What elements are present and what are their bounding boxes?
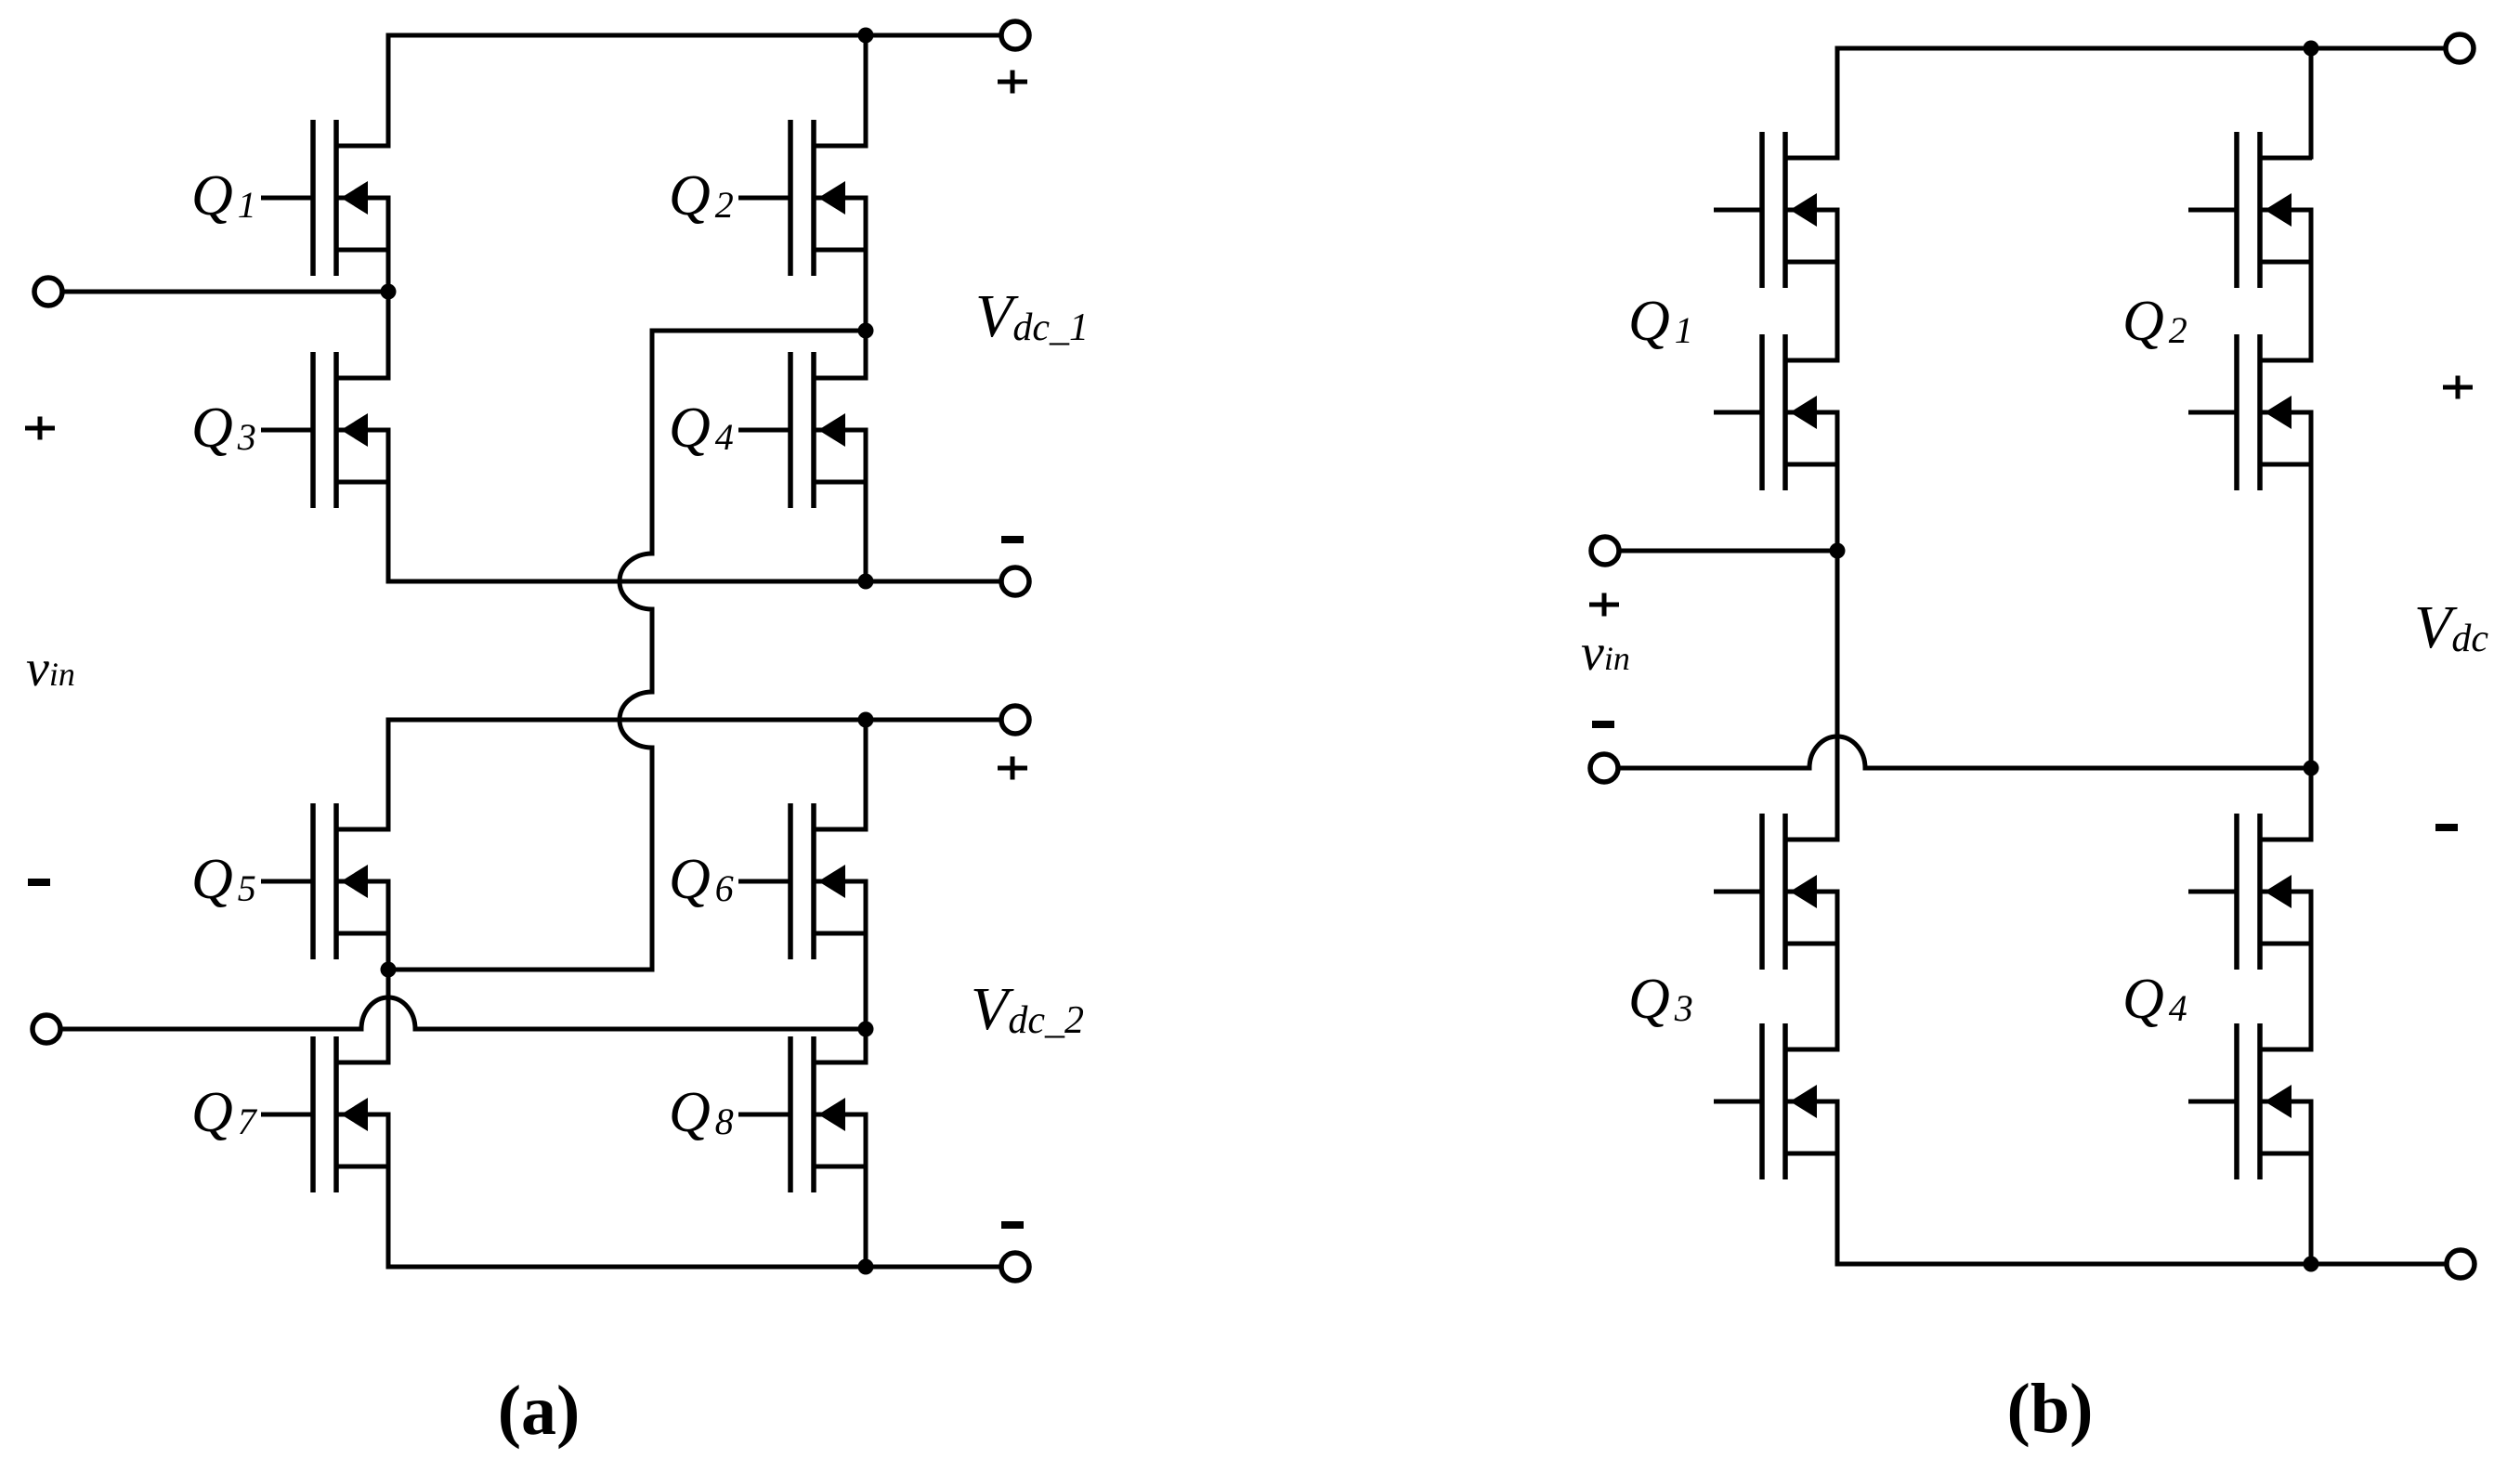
- junction input vin+ / Q1-Q3 node (b): [1830, 543, 1846, 559]
- polarity + Vdc_1: [998, 71, 1027, 94]
- junction node A / Q5-Q7 node: [381, 962, 397, 978]
- transistor Q2 lower half: [2188, 334, 2312, 490]
- wire Q2 drain (b): [2309, 48, 2314, 157]
- transistor Q4 lower half: [2188, 1023, 2312, 1179]
- wire Q1 source to Q3 drain (b): [1835, 412, 1840, 840]
- terminal Vdc_2 +: [1001, 706, 1029, 734]
- polarity + vin (b): [1589, 593, 1619, 617]
- wire Q6 source to Q8 drain: [864, 881, 868, 1062]
- junction Q4 source / bottom rail (b): [2304, 1257, 2319, 1272]
- wire cross-connect node A with hops: [388, 331, 866, 970]
- polarity + Vdc: [2443, 376, 2473, 399]
- wire input vin- (a) with hop: [62, 997, 866, 1029]
- polarity - vin (a): [28, 879, 50, 886]
- transistor Q6: [738, 803, 866, 959]
- wire Q1 internal (b): [1835, 210, 1840, 360]
- polarity - vin (b): [1592, 721, 1614, 728]
- transistor Q2: [738, 120, 866, 276]
- transistor Q4: [738, 352, 866, 508]
- terminal vin - (a): [33, 1015, 60, 1043]
- wire Q2 internal (b): [2309, 210, 2314, 360]
- junction input vin- / Q2-Q4 node (b): [2304, 761, 2319, 776]
- wire Q7 source to bottom rail: [388, 1114, 1001, 1267]
- wire top rail Vdc_1 +: [388, 35, 1001, 146]
- junction input vin+ / Q1-Q3 node: [381, 284, 397, 300]
- terminal Vdc + (b): [2446, 34, 2474, 62]
- wire Q4 source (b): [2309, 1101, 2314, 1264]
- transistor Q3 lower half: [1714, 1023, 1837, 1179]
- transistor Q7: [261, 1036, 388, 1192]
- wire top rail Vdc +: [1837, 48, 2446, 158]
- wire Q1 source to Q3 drain: [386, 198, 391, 378]
- wire Q4 internal (b): [2309, 892, 2314, 1049]
- junction Q4 source / Vdc_1 - rail: [858, 574, 874, 590]
- transistor Q4 upper half: [2188, 814, 2312, 970]
- polarity - Vdc_2: [1001, 1221, 1024, 1229]
- wire Q3 source to bottom rail (b): [1837, 1101, 2447, 1264]
- wire Q5 source to Q7 drain: [386, 881, 391, 1062]
- transistor Q8: [738, 1036, 866, 1192]
- transistor Q1 lower half: [1714, 334, 1837, 490]
- wire input vin+ (b): [1621, 549, 1837, 554]
- polarity + vin (a): [25, 417, 55, 440]
- polarity + Vdc_2: [998, 757, 1027, 780]
- wire input vin- (b) with hop: [1620, 736, 2311, 768]
- wire input vin+ (a): [63, 290, 388, 294]
- transistor Q3: [261, 352, 388, 508]
- junction Q2 source / Q4 drain / node A: [858, 323, 874, 339]
- polarity - Vdc_1: [1001, 536, 1024, 543]
- terminal vin + (a): [34, 278, 62, 306]
- junction Q8 source / bottom rail: [858, 1259, 874, 1275]
- wire Q8 source: [864, 1114, 868, 1267]
- junction input vin- / Q6-Q8 node: [858, 1022, 874, 1037]
- terminal Vdc_2 -: [1001, 1253, 1029, 1281]
- wire Q3 source to Vdc_1 - rail: [388, 430, 1001, 581]
- wire Q2 source to Q4 drain (b): [2309, 412, 2314, 840]
- junction top rail / Q2 drain (b): [2304, 41, 2319, 57]
- wire Q4 drain: [864, 331, 868, 378]
- wire Q3 internal (b): [1835, 892, 1840, 1049]
- wire Q2 drain: [864, 35, 868, 146]
- transistor Q1 upper half: [1714, 132, 1837, 288]
- terminal vin - (b): [1590, 754, 1618, 782]
- polarity - Vdc: [2435, 824, 2458, 831]
- svg-text:(a): (a): [498, 1372, 581, 1450]
- terminal vin + (b): [1591, 537, 1619, 565]
- transistor Q2 upper half: [2188, 132, 2312, 288]
- terminal Vdc_1 -: [1001, 567, 1029, 595]
- terminal Vdc - (b): [2447, 1250, 2474, 1278]
- wire Q6 drain: [864, 720, 868, 829]
- wire Q4 source: [864, 430, 868, 581]
- wire lower top rail Vdc_2 +: [388, 720, 1001, 829]
- junction lower rail / Q6 drain: [858, 712, 874, 728]
- wire Q2 source: [864, 198, 868, 331]
- junction top rail / Q2 drain: [858, 28, 874, 44]
- transistor Q3 upper half: [1714, 814, 1837, 970]
- transistor Q5: [261, 803, 388, 959]
- svg-text:(b): (b): [2007, 1370, 2094, 1448]
- transistor Q1: [261, 120, 388, 276]
- terminal Vdc_1 +: [1001, 21, 1029, 49]
